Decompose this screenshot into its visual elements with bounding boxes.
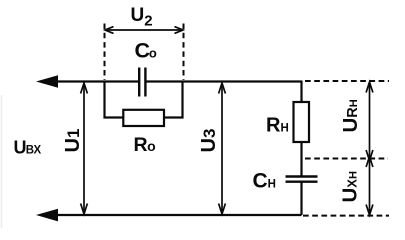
input terminal arrow bottom <box>36 209 58 222</box>
wire parallel branch right <box>164 82 183 118</box>
dimension arrow URH <box>366 82 373 161</box>
svg-text:UВХ: UВХ <box>14 137 42 157</box>
dimension arrow U1 <box>81 83 88 214</box>
wire parallel branch left <box>105 82 124 118</box>
dimension arrow UXH <box>366 157 373 216</box>
wire right branch top <box>300 81 302 103</box>
svg-text:U1: U1 <box>62 129 84 153</box>
dashed extension line right of U2 <box>183 24 185 81</box>
resistor R0 <box>123 110 164 126</box>
svg-text:CH: CH <box>253 169 276 192</box>
dimension arrow U2 <box>105 27 183 34</box>
wire RH to CH <box>300 142 302 176</box>
svg-text:Co: Co <box>135 38 157 62</box>
capacitor CH <box>286 177 318 182</box>
dashed extension line left of U2 <box>104 24 106 81</box>
dashed extension line middle right <box>305 158 388 160</box>
capacitor C0 <box>139 68 145 97</box>
svg-text:UXH: UXH <box>339 171 362 202</box>
svg-text:U3: U3 <box>198 129 220 153</box>
resistor RH <box>294 102 310 142</box>
wire bottom <box>46 214 302 216</box>
dashed extension line bottom right <box>303 215 389 217</box>
svg-text:URH: URH <box>339 99 362 132</box>
wire top <box>46 80 138 82</box>
scan edge artifact <box>1 95 3 228</box>
input terminal arrow top <box>36 75 58 88</box>
dimension arrow U3 <box>219 83 226 214</box>
wire CH to bottom <box>300 182 302 215</box>
svg-text:U2: U2 <box>131 5 153 30</box>
dashed extension line top right <box>305 80 389 82</box>
svg-text:RH: RH <box>266 115 289 137</box>
wire top right of C0 <box>146 80 302 82</box>
svg-text:Ro: Ro <box>134 134 156 156</box>
